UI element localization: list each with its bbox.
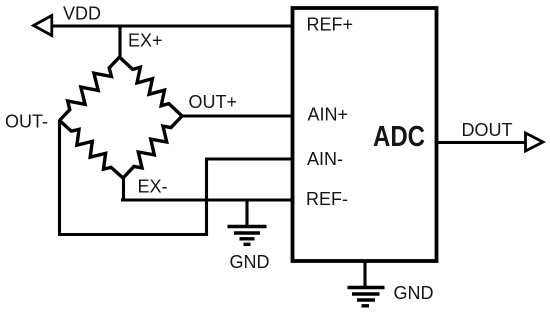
ground GND1 bars xyxy=(228,227,267,245)
ground GND2 bars xyxy=(348,288,385,306)
VDD arrow (left-pointing open triangle) xyxy=(34,16,52,36)
wire OUT- vertical from left vertex xyxy=(58,120,61,236)
svg-text:AIN-: AIN- xyxy=(307,149,343,169)
wire EX+ stub vertical xyxy=(118,26,121,58)
svg-text:DOUT: DOUT xyxy=(462,120,513,140)
svg-text:GND: GND xyxy=(394,283,434,303)
svg-text:VDD: VDD xyxy=(63,3,101,23)
wire EX- stub vertical xyxy=(122,178,125,202)
svg-text:AIN+: AIN+ xyxy=(308,105,349,125)
resistor R1 top-left (EX+ to OUT-) xyxy=(60,57,120,121)
wire ground2 stem xyxy=(363,259,366,288)
resistor R4 bottom-right (OUT+ to EX-) xyxy=(123,116,182,178)
svg-text:ADC: ADC xyxy=(373,121,425,153)
wire DOUT xyxy=(436,141,526,144)
wire AIN- vertical segment xyxy=(205,158,208,237)
wire ground1 stem xyxy=(245,200,248,227)
svg-text:GND: GND xyxy=(230,252,270,272)
svg-text:OUT-: OUT- xyxy=(5,111,48,131)
ADC box U1 xyxy=(293,8,437,261)
wire AIN+ from bridge right vertex to ADC xyxy=(182,114,293,117)
svg-text:REF-: REF- xyxy=(306,189,348,209)
wire bottom horizontal OUT- to AIN- xyxy=(58,233,208,236)
svg-text:REF+: REF+ xyxy=(307,15,354,35)
wire AIN- horizontal to ADC xyxy=(207,157,294,160)
wire REF- horizontal xyxy=(121,198,293,201)
svg-text:EX+: EX+ xyxy=(128,31,163,51)
wire VDD horizontal xyxy=(52,24,294,27)
svg-text:OUT+: OUT+ xyxy=(189,92,238,112)
svg-text:EX-: EX- xyxy=(138,177,168,197)
resistor R3 bottom-left (OUT- to EX-) xyxy=(60,121,124,179)
resistor R2 top-right (EX+ to OUT+) xyxy=(120,57,183,116)
DOUT arrow (right-pointing open triangle) xyxy=(526,133,544,151)
